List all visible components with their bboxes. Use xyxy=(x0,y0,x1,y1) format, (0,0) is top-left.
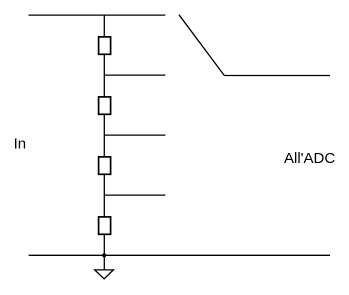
wire: R4 bottom lead to ground rail xyxy=(103,234,105,270)
svg-text:In: In xyxy=(14,136,27,153)
wire: bottom ground rail xyxy=(29,254,330,256)
node: junction of ladder and ground rail xyxy=(102,253,106,257)
wire: switch output to ADC xyxy=(224,75,330,77)
wire: top input rail xyxy=(29,14,166,16)
wire: tap 2 to switch contact xyxy=(104,134,165,136)
wire: R3 to R4 segment xyxy=(103,174,105,217)
wire: tap 3 to switch contact xyxy=(104,194,165,196)
ground xyxy=(95,270,114,279)
svg-text:All'ADC: All'ADC xyxy=(284,150,335,167)
wire: R1 top lead xyxy=(103,15,105,37)
resistor R1 xyxy=(99,37,111,54)
wire: selector switch wiper (diagonal) xyxy=(179,15,224,76)
wire: R1 to R2 segment xyxy=(103,54,105,97)
wire: R2 to R3 segment xyxy=(103,114,105,157)
resistor R2 xyxy=(99,97,111,114)
wire: tap 1 to switch contact xyxy=(104,74,165,76)
resistor R4 xyxy=(99,217,111,234)
resistor R3 xyxy=(99,157,111,174)
